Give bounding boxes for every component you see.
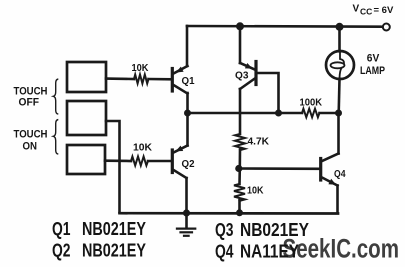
bottom rail <box>120 212 339 215</box>
junction dot node B (Q3 base) <box>275 110 282 117</box>
Q2 emitter diagonal <box>174 170 187 178</box>
wire Q3 collector down to R3 <box>239 89 242 134</box>
resistor R3 4.7K vertical <box>235 134 245 150</box>
Q2 arrow <box>176 146 184 152</box>
wire Q2 collector up to node line <box>186 113 189 146</box>
touch pad P1 <box>67 62 106 92</box>
wire pad P3 to R2 <box>105 159 131 162</box>
resistor R1 10K <box>134 75 148 84</box>
wire Q1 collector down to node line <box>186 93 189 113</box>
transistor Q2 bar <box>171 150 174 173</box>
wire R5 to node D <box>320 112 339 115</box>
touch pad P3 <box>67 145 105 174</box>
transistor Q1 bar <box>171 69 174 92</box>
wire Q2 emitter down to bottom rail <box>185 178 188 213</box>
ground bars <box>177 227 195 229</box>
wire R3 to node C <box>239 150 242 169</box>
junction dot ground <box>183 209 190 216</box>
wire Q4 emitter down to bottom rail <box>336 186 339 214</box>
lamp DS1 body <box>326 51 354 79</box>
svg-text:10K: 10K <box>132 62 149 74</box>
node line Q1C-Q3B-100K <box>188 112 303 115</box>
Q4 collector diagonal <box>322 154 339 162</box>
svg-text:Q1: Q1 <box>52 219 71 239</box>
svg-text:V: V <box>353 4 360 15</box>
Q3 collector diagonal <box>240 79 255 90</box>
wire R4 to bottom rail <box>238 200 241 213</box>
Q1 collector diagonal <box>174 85 188 94</box>
Q4 emitter diagonal <box>322 178 338 186</box>
Q3 emitter diagonal <box>240 63 255 70</box>
svg-text:4.7K: 4.7K <box>248 136 270 148</box>
wire R1 to Q1 base <box>149 78 172 81</box>
wire Q4 collector up to node D <box>337 113 340 154</box>
transistor Q3 bar <box>254 62 257 85</box>
wire top rail to Q3 emitter <box>239 26 242 63</box>
svg-text:Q4: Q4 <box>215 241 234 261</box>
svg-text:Q3: Q3 <box>235 70 249 82</box>
svg-text:TOUCH: TOUCH <box>14 129 48 141</box>
wire pad P2 down to bottom rail <box>106 121 120 212</box>
junction dot bottom rail / R4 <box>236 209 243 216</box>
brace touch on <box>53 120 58 155</box>
svg-text:= 6V: = 6V <box>374 5 394 16</box>
svg-text:ON: ON <box>23 141 38 153</box>
Q4 arrow <box>328 179 336 185</box>
svg-text:10K: 10K <box>247 185 264 197</box>
svg-text:6V: 6V <box>367 53 380 65</box>
svg-text:NB021EY: NB021EY <box>82 240 146 260</box>
touch pad P2 <box>67 101 106 135</box>
svg-text:Q1: Q1 <box>182 75 195 87</box>
junction dot node D (100K / lamp / Q4 collector) <box>335 110 342 117</box>
Q3 arrow <box>245 63 253 69</box>
junction dot top rail / Q3 emitter <box>236 22 244 30</box>
resistor R5 100K <box>302 109 319 118</box>
svg-text:SeekIC.com: SeekIC.com <box>283 234 400 264</box>
junction dot top rail / lamp <box>336 23 344 31</box>
wire R2 to Q2 base <box>148 160 171 163</box>
svg-text:10K: 10K <box>133 142 152 154</box>
Q1 arrow <box>176 67 184 73</box>
Q1 emitter wire up to top rail <box>186 26 189 66</box>
svg-text:100K: 100K <box>300 97 323 109</box>
lamp DS1 leads <box>338 27 341 52</box>
wire pad P1 to R1 <box>106 77 134 80</box>
ground stub <box>185 213 188 227</box>
top rail VCC <box>187 25 383 28</box>
svg-text:Q2: Q2 <box>52 240 71 260</box>
lamp DS1 filament <box>340 52 344 64</box>
svg-text:Q4: Q4 <box>334 168 346 180</box>
Q1 emitter diagonal <box>174 66 188 74</box>
svg-text:CC: CC <box>360 7 372 17</box>
svg-text:Q2: Q2 <box>182 158 195 170</box>
wire node C to Q4 base <box>239 167 320 170</box>
svg-text:NB021EY: NB021EY <box>82 219 146 239</box>
svg-text:Q3: Q3 <box>215 220 234 240</box>
junction dot node C (R3/R4/Q4 base) <box>235 165 242 172</box>
VCC terminal <box>383 24 390 31</box>
resistor R4 10K vertical <box>234 184 245 201</box>
svg-text:OFF: OFF <box>19 97 40 109</box>
Q3 base wire <box>257 73 279 113</box>
transistor Q4 bar <box>319 159 322 181</box>
wire node C to R4 <box>238 169 241 185</box>
svg-text:LAMP: LAMP <box>360 65 385 77</box>
resistor R2 10K <box>131 157 148 166</box>
junction dot node A (Q1/Q2 collectors) <box>184 110 191 117</box>
Q2 collector diagonal <box>174 146 188 153</box>
brace touch off <box>53 79 58 114</box>
